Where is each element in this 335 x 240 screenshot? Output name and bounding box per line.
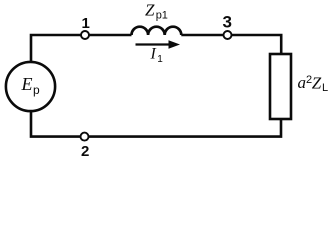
- svg-text:I: I: [150, 45, 157, 62]
- svg-text:1: 1: [157, 54, 163, 65]
- load box a2ZL: [270, 54, 291, 119]
- svg-text:3: 3: [223, 13, 232, 32]
- node 1 terminal: [81, 31, 89, 39]
- svg-text:L: L: [322, 82, 328, 94]
- inductor Zp1 coil: [132, 27, 182, 35]
- svg-text:E: E: [21, 74, 33, 94]
- current arrow I1: [136, 43, 171, 45]
- svg-text:1: 1: [82, 15, 90, 32]
- svg-text:2: 2: [81, 143, 89, 160]
- wire top left segment: [31, 35, 132, 62]
- wire bottom: [31, 111, 281, 137]
- node 2 terminal: [81, 133, 89, 141]
- source Ep circle: [6, 62, 55, 111]
- wire top right segment: [181, 35, 281, 54]
- svg-text:p1: p1: [156, 10, 168, 22]
- svg-text:p: p: [33, 83, 40, 97]
- svg-text:Z: Z: [145, 1, 155, 20]
- svg-text:a: a: [298, 73, 307, 92]
- svg-text:Z: Z: [312, 73, 322, 92]
- node 3 terminal: [224, 31, 232, 39]
